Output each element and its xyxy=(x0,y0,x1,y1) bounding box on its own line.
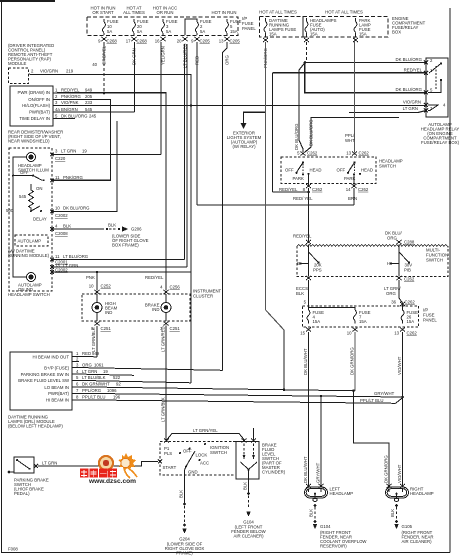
svg-text:949: 949 xyxy=(85,88,93,93)
svg-text:LT GRN: LT GRN xyxy=(42,461,57,466)
svg-text:(W/ RELAY): (W/ RELAY) xyxy=(232,144,256,149)
DRL row7 junction right lamp xyxy=(401,396,404,399)
BLK dash to ground xyxy=(106,228,120,230)
svg-text:15A: 15A xyxy=(407,319,415,324)
svg-text:LT GRN: LT GRN xyxy=(82,369,97,374)
svg-text:C251: C251 xyxy=(170,326,181,331)
module pin stubs xyxy=(53,93,57,119)
svg-text:19: 19 xyxy=(103,369,108,374)
svg-text:522: 522 xyxy=(113,375,121,380)
node junction autolamp feed xyxy=(304,61,307,64)
fuse panel bottom pin x right xyxy=(400,328,405,332)
svg-text:DK BLU/ORG: DK BLU/ORG xyxy=(309,119,314,146)
multifunction top pin right x xyxy=(397,240,402,244)
parking brake pin x xyxy=(34,464,38,468)
fuse headlamps auto 15A xyxy=(305,18,308,37)
svg-text:20: 20 xyxy=(177,39,182,44)
left headlamp pins x xyxy=(306,484,324,488)
svg-text:HEAD: HEAD xyxy=(361,167,373,172)
I/P fuse panel dashed box xyxy=(87,17,238,36)
svg-text:92: 92 xyxy=(116,382,121,387)
svg-text:40: 40 xyxy=(92,62,97,67)
fuse F2 5A with feed bracket xyxy=(185,19,199,35)
svg-text:LT BLU/ORG: LT BLU/ORG xyxy=(63,254,89,259)
svg-text:BLK: BLK xyxy=(179,490,184,498)
svg-text:PANEL: PANEL xyxy=(423,318,437,323)
wire DK BLU/ORG relay row xyxy=(305,62,427,64)
wire fuseC down to junction xyxy=(402,332,404,397)
svg-text:NEAR WINDSHIELD): NEAR WINDSHIELD) xyxy=(8,139,50,144)
svg-text:PARKING BRAKE SW IN: PARKING BRAKE SW IN xyxy=(21,372,69,377)
inner bus wire xyxy=(13,157,27,277)
DRL row8 wire with diag xyxy=(75,398,403,404)
svg-text:G105: G105 xyxy=(402,524,413,529)
svg-text:GRY/WHT: GRY/WHT xyxy=(374,391,395,396)
svg-text:RED: RED xyxy=(82,351,91,356)
lamp control module box xyxy=(10,86,53,126)
svg-text:C220: C220 xyxy=(55,156,66,161)
svg-text:F008: F008 xyxy=(8,547,18,552)
svg-text:B+/P (FUSE): B+/P (FUSE) xyxy=(44,365,69,370)
svg-text:205: 205 xyxy=(85,94,93,99)
defog box pin x marks xyxy=(50,153,54,274)
relay pin3 x xyxy=(424,109,428,113)
wire RAP module output riser xyxy=(30,75,191,383)
headlamp switch dashed box xyxy=(281,157,376,184)
wire lo beam L path to right headlamp xyxy=(354,391,390,485)
ignition gnd stub xyxy=(185,467,187,476)
headlamp switch dashed box xyxy=(9,148,52,291)
DRL row7 junction left lamp xyxy=(320,395,323,398)
wire RED/YEL relay row xyxy=(273,72,427,74)
svg-text:13: 13 xyxy=(394,331,399,336)
brake ground node xyxy=(247,492,250,495)
ignition side pin x xyxy=(158,460,162,464)
fuse F10 5A xyxy=(103,19,106,35)
left headlamp body xyxy=(305,487,328,501)
svg-text:DELAY: DELAY xyxy=(33,217,47,222)
svg-text:LT GRN: LT GRN xyxy=(61,149,76,154)
high beam ind lamp xyxy=(92,294,102,321)
relay coil link xyxy=(428,79,442,111)
wire DRL fuse drop gray xyxy=(265,42,267,310)
svg-text:PIB: PIB xyxy=(404,268,411,273)
svg-text:ORG: ORG xyxy=(386,291,396,296)
svg-text:4a: 4a xyxy=(55,107,60,112)
frame border left xyxy=(1,0,3,553)
svg-text:RESERVOIR): RESERVOIR) xyxy=(320,544,347,549)
wire fuse auto dashed drop xyxy=(306,42,308,60)
svg-text:DK BLU/WHT: DK BLU/WHT xyxy=(303,456,308,483)
ground arrow G206 xyxy=(122,226,128,232)
svg-text:DK GRN/ORG: DK GRN/ORG xyxy=(350,347,355,375)
wire fuse10 drop dashed to junction xyxy=(103,58,105,93)
node junction RED/YEL at pin8 xyxy=(307,191,310,194)
svg-text:C262: C262 xyxy=(307,151,318,156)
svg-text:H: H xyxy=(387,261,390,266)
connector x below DRL fuse xyxy=(263,38,268,42)
offpage arrow stem xyxy=(244,112,266,123)
right headlamp body xyxy=(386,487,409,501)
relay pin1 x xyxy=(424,71,428,75)
svg-text:5A: 5A xyxy=(137,29,142,34)
right lamp ground arrow xyxy=(394,524,399,529)
svg-text:245: 245 xyxy=(89,113,97,118)
multifunction right contact xyxy=(390,252,410,265)
svg-text:19: 19 xyxy=(82,149,87,154)
svg-text:15: 15 xyxy=(300,331,305,336)
connector C281 pin 20 xyxy=(183,37,188,41)
svg-text:BRAKE FLUID LEVEL SW: BRAKE FLUID LEVEL SW xyxy=(18,378,70,383)
svg-text:FUSE/RELAY BOX): FUSE/RELAY BOX) xyxy=(421,140,460,145)
relay pin numbers xyxy=(430,58,446,111)
svg-text:PWR(BAT): PWR(BAT) xyxy=(29,110,50,115)
ignition rotor contacts xyxy=(179,443,206,468)
multifunction top pin left x xyxy=(306,240,311,244)
wire module row3 VIO/GRN long xyxy=(57,105,426,107)
wire PPL feed row xyxy=(305,117,399,152)
svg-text:HEADLAMP SWITCH: HEADLAMP SWITCH xyxy=(8,292,50,297)
svg-text:RED/ YEL: RED/ YEL xyxy=(293,196,313,201)
svg-text:196: 196 xyxy=(113,395,121,400)
svg-text:36: 36 xyxy=(391,300,396,305)
fuse F3 5A xyxy=(162,19,165,35)
svg-text:VIO/PNK: VIO/PNK xyxy=(61,100,79,105)
brake ground arrow xyxy=(246,512,251,517)
DRL row6 junction a xyxy=(283,389,286,392)
svg-text:SWITCH: SWITCH xyxy=(426,258,443,263)
delay contact xyxy=(30,206,42,212)
svg-text:VIO/GRN: VIO/GRN xyxy=(40,69,58,74)
right lamp ground dashed xyxy=(396,507,398,520)
svg-text:LOCK: LOCK xyxy=(196,453,208,458)
ground row 4 BLK xyxy=(52,228,104,230)
multifunction bottom pin left x xyxy=(306,276,311,280)
connector C281 pin 16 xyxy=(161,37,166,41)
svg-text:TIME DELAY IN: TIME DELAY IN xyxy=(19,116,50,121)
svg-text:C262: C262 xyxy=(407,331,418,336)
svg-text:15A: 15A xyxy=(359,32,367,37)
relay pin2 x xyxy=(424,61,428,65)
svg-text:PEDAL): PEDAL) xyxy=(14,491,30,496)
fuse link f1-f2 xyxy=(309,303,356,310)
wire multifn left down xyxy=(308,280,310,303)
connector C205 pin 13 xyxy=(225,37,230,41)
svg-text:VIO/GRN: VIO/GRN xyxy=(403,100,421,105)
left lamp ground node xyxy=(314,504,317,507)
wire DRL fuse lower drop xyxy=(283,330,285,390)
svg-text:OFF: OFF xyxy=(285,167,294,172)
wire DB BLU/ORG relay pin3 feed xyxy=(305,63,426,93)
panel fuse C xyxy=(401,305,404,323)
wire module row2 xyxy=(52,100,111,181)
svg-text:15A: 15A xyxy=(313,319,321,324)
fuse park lamp 15A xyxy=(354,18,357,37)
svg-text:11: 11 xyxy=(55,175,60,180)
ignition ground wire xyxy=(184,475,186,503)
svg-text:C262: C262 xyxy=(358,187,369,192)
wire fuseB down to junction xyxy=(354,332,356,391)
svg-text:LT GRN/YEL: LT GRN/YEL xyxy=(193,428,218,433)
svg-text:1096: 1096 xyxy=(107,388,117,393)
svg-text:LO BEAM IN: LO BEAM IN xyxy=(44,385,69,390)
headlamp switch pin5 x xyxy=(301,152,306,156)
RAP module dashed box xyxy=(9,68,29,84)
high beam ind drop xyxy=(96,272,98,291)
wire brake switch right feed xyxy=(253,428,255,440)
parking brake arm xyxy=(16,459,31,470)
wire fuse10 drop solid xyxy=(103,42,105,58)
relay switch arm xyxy=(429,62,442,73)
svg-text:SWITCH: SWITCH xyxy=(210,450,227,455)
frame border bottom xyxy=(2,552,451,554)
svg-text:545: 545 xyxy=(85,107,93,112)
svg-text:AIR CLEANER): AIR CLEANER) xyxy=(233,534,264,539)
svg-text:10: 10 xyxy=(89,284,94,289)
svg-text:17: 17 xyxy=(126,39,131,44)
DRL row1 wire to cluster xyxy=(75,356,97,358)
node junction RED/YEL row1 xyxy=(103,92,106,95)
wire brake ind drop to ignition xyxy=(165,326,167,440)
wire park fuse drop xyxy=(354,37,356,152)
ignition switch dashed box xyxy=(160,442,236,476)
svg-text:DK BLU/WHT: DK BLU/WHT xyxy=(303,348,308,375)
brake ind lamp xyxy=(161,294,171,321)
svg-text:G206: G206 xyxy=(131,227,142,232)
svg-text:PPL/ORG: PPL/ORG xyxy=(82,388,102,393)
node junction VIO riser on row3 xyxy=(190,104,193,107)
svg-text:ACC: ACC xyxy=(200,461,209,466)
cluster pin 10 C252 xyxy=(95,290,100,294)
right headlamp pins x xyxy=(387,484,406,488)
svg-text:ORG: ORG xyxy=(225,55,230,65)
wire left lamp hi feed xyxy=(320,396,322,485)
svg-text:16: 16 xyxy=(155,39,160,44)
svg-text:HI/LO(FLASH): HI/LO(FLASH) xyxy=(22,103,51,108)
svg-text:OFF: OFF xyxy=(337,167,346,172)
svg-text:949: 949 xyxy=(92,351,100,356)
DRL row4 wire xyxy=(75,374,134,375)
svg-text:233: 233 xyxy=(85,100,93,105)
svg-text:DK BLU/ORG: DK BLU/ORG xyxy=(63,206,90,211)
svg-text:BOX: BOX xyxy=(392,30,401,35)
svg-text:ORG: ORG xyxy=(387,236,397,241)
svg-text:ON: ON xyxy=(36,186,42,191)
relay pin5 x xyxy=(424,91,428,95)
svg-text:VIO/WHT: VIO/WHT xyxy=(397,464,402,483)
svg-text:LT GRN/RED: LT GRN/RED xyxy=(161,326,166,352)
svg-text:ON/OFF IN: ON/OFF IN xyxy=(28,97,50,102)
wire headlamp sw pin14 drop xyxy=(353,188,355,205)
svg-text:IND: IND xyxy=(152,307,159,312)
DRL row6 junction b xyxy=(352,389,355,392)
svg-text:AUTOLAMP: AUTOLAMP xyxy=(18,239,42,244)
fuse panel bottom pin x left xyxy=(306,328,311,332)
connector x below headlamps fuse xyxy=(304,38,309,42)
svg-text:C205: C205 xyxy=(200,39,211,44)
frame border top notch xyxy=(0,0,55,2)
parking brake switch box xyxy=(14,457,34,473)
DRL fuse dashed box xyxy=(260,17,304,38)
svg-text:BLK: BLK xyxy=(390,509,395,517)
wire module row1 RED/YEL riser to cluster xyxy=(57,93,166,291)
svg-text:545: 545 xyxy=(19,194,27,199)
svg-text:PNK/ORG: PNK/ORG xyxy=(61,94,81,99)
headlamp switch pin13 x xyxy=(352,152,357,156)
DRL module box xyxy=(10,352,72,410)
wire defog delay row xyxy=(52,121,117,211)
relay plunger dashed xyxy=(435,66,437,90)
connector x below park fuse xyxy=(353,38,358,42)
svg-text:BLK: BLK xyxy=(108,223,116,228)
brake fluid ground wire xyxy=(248,479,250,492)
brake fluid switch pins x xyxy=(242,439,257,443)
svg-text:RED/YEL: RED/YEL xyxy=(61,88,80,93)
wire fuse5 drop xyxy=(196,42,198,205)
svg-text:(BELOW LEFT HEADLAMP): (BELOW LEFT HEADLAMP) xyxy=(8,424,63,429)
wire headlamp sw pin8 drop xyxy=(308,188,310,242)
offpage arrowhead xyxy=(241,123,247,129)
fuse DRL 15A xyxy=(264,18,267,37)
svg-text:10: 10 xyxy=(55,206,60,211)
svg-text:PWR (DRAW) IN: PWR (DRAW) IN xyxy=(17,90,50,95)
connector C205 pin 9 xyxy=(195,37,200,41)
wire high beam to DRL xyxy=(96,326,98,357)
fuse panel top right x xyxy=(400,302,405,306)
wire fuse2a drop xyxy=(184,44,186,260)
svg-text:GND: GND xyxy=(188,470,198,475)
svg-text:RED/YEL: RED/YEL xyxy=(145,275,164,280)
svg-text:C262: C262 xyxy=(404,277,415,282)
ignition ground node2 xyxy=(183,524,186,527)
svg-text:PLS: PLS xyxy=(164,451,172,456)
svg-text:PPL/LT BLU: PPL/LT BLU xyxy=(82,395,106,400)
svg-text:www.dzsc.com: www.dzsc.com xyxy=(88,478,136,485)
svg-text:C205: C205 xyxy=(230,39,241,44)
svg-text:C288: C288 xyxy=(404,240,415,245)
pin 3 LT GRN row xyxy=(52,153,161,155)
svg-text:RED/YEL: RED/YEL xyxy=(293,234,312,239)
right lamp ground node xyxy=(395,504,398,507)
svg-text:BLK: BLK xyxy=(296,291,304,296)
svg-text:GRY/WHT: GRY/WHT xyxy=(316,462,321,483)
svg-text:C252: C252 xyxy=(101,284,112,289)
inner bus node xyxy=(12,175,14,177)
svg-text:10: 10 xyxy=(347,331,352,336)
fuse F20 5A xyxy=(133,19,136,35)
wire fuse2b drop xyxy=(186,44,188,267)
headlamp switch pin8 x xyxy=(306,184,311,188)
left lamp ground dashed xyxy=(314,507,316,520)
svg-text:13: 13 xyxy=(346,151,351,156)
wire defog pin11 row xyxy=(52,259,185,261)
svg-text:C268: C268 xyxy=(137,39,148,44)
wire fuseA down to headlamp xyxy=(308,332,310,485)
wire ignition feed xyxy=(167,434,244,440)
rheostat zigzag xyxy=(29,184,34,211)
DRL pin stubs xyxy=(72,357,79,400)
svg-text:HEADLAMP: HEADLAMP xyxy=(410,491,434,496)
svg-text:RED/YEL: RED/YEL xyxy=(279,187,298,192)
brake fluid switch box xyxy=(236,442,259,480)
svg-text:HEADLAMP: HEADLAMP xyxy=(330,491,354,496)
svg-text:13: 13 xyxy=(219,39,224,44)
svg-text:OR START: OR START xyxy=(92,10,114,15)
svg-text:C256: C256 xyxy=(170,285,181,290)
svg-text:HOT AT ALL TIMES: HOT AT ALL TIMES xyxy=(325,10,363,15)
interior fuse panel dashed box xyxy=(303,306,419,327)
svg-text:RUNNING MODULE): RUNNING MODULE) xyxy=(8,253,50,258)
pin stub RAP xyxy=(29,73,31,75)
svg-text:BLK: BLK xyxy=(243,482,248,490)
autolamp ind lamp xyxy=(27,273,36,282)
svg-text:DK GRN/WHT: DK GRN/WHT xyxy=(82,382,110,387)
svg-text:HOT AT ALL TIMES: HOT AT ALL TIMES xyxy=(259,10,297,15)
wire diag to headlamp switch feed xyxy=(299,63,305,153)
svg-text:15A: 15A xyxy=(359,319,367,324)
brake fluid switch internals xyxy=(241,444,258,480)
wire parking brake to ignition xyxy=(38,462,158,467)
DRL row3 wire xyxy=(75,368,223,371)
svg-text:C2002: C2002 xyxy=(55,213,68,218)
svg-text:HI BEAM IN: HI BEAM IN xyxy=(46,398,69,403)
fuse panel bottom pin x mid xyxy=(353,328,358,332)
offpage destination text xyxy=(227,131,262,150)
svg-text:1061: 1061 xyxy=(94,362,104,367)
svg-text:ALL TIMES: ALL TIMES xyxy=(123,10,145,15)
svg-text:PNK: PNK xyxy=(86,275,95,280)
wire DRL fuse jog xyxy=(266,310,284,330)
svg-text:C262: C262 xyxy=(312,187,323,192)
wire RED/YEL riser xyxy=(272,73,274,192)
module row5 wire xyxy=(57,118,75,120)
svg-text:G104: G104 xyxy=(320,524,331,529)
svg-text:CLUSTER: CLUSTER xyxy=(193,294,213,299)
watermark mascot arms xyxy=(124,468,137,478)
panel fuse A xyxy=(307,310,310,323)
svg-text:15A: 15A xyxy=(269,32,277,37)
svg-text:BN/GRN: BN/GRN xyxy=(61,107,78,112)
svg-text:DK BLU/ORG: DK BLU/ORG xyxy=(395,57,422,62)
DRL row7 wire xyxy=(75,393,403,397)
svg-text:START: START xyxy=(163,465,177,470)
fuse F5 15A xyxy=(226,19,229,35)
svg-text:5A: 5A xyxy=(200,29,205,34)
wire fuse3 drop xyxy=(160,42,162,154)
ignition pin x xyxy=(164,439,169,443)
svg-text:15A: 15A xyxy=(230,29,238,34)
brake ground dashed xyxy=(248,496,250,509)
switch arm off-on xyxy=(32,175,45,182)
svg-text:DK BLU/ORG: DK BLU/ORG xyxy=(61,113,88,118)
svg-text:C2008: C2008 xyxy=(55,231,68,236)
engine compartment fuse box dashed outline xyxy=(303,17,388,38)
ignition ground node xyxy=(183,503,186,506)
svg-text:WHT: WHT xyxy=(345,138,355,143)
svg-text:PANEL: PANEL xyxy=(242,26,256,31)
svg-text:5A: 5A xyxy=(107,29,112,34)
svg-text:SWITCH: SWITCH xyxy=(379,164,396,169)
wire defog pin13 row xyxy=(52,266,187,268)
svg-text:OFF: OFF xyxy=(20,170,29,175)
svg-text:LT GRN/BLK: LT GRN/BLK xyxy=(91,327,96,352)
svg-text:FRAME): FRAME) xyxy=(176,551,193,556)
parking brake ground pin xyxy=(8,471,14,474)
ignition ground dashed xyxy=(184,506,186,523)
watermark badge circle xyxy=(99,456,113,470)
watermark chinese text xyxy=(80,469,117,478)
svg-text:VIO/WHT: VIO/WHT xyxy=(397,356,402,375)
